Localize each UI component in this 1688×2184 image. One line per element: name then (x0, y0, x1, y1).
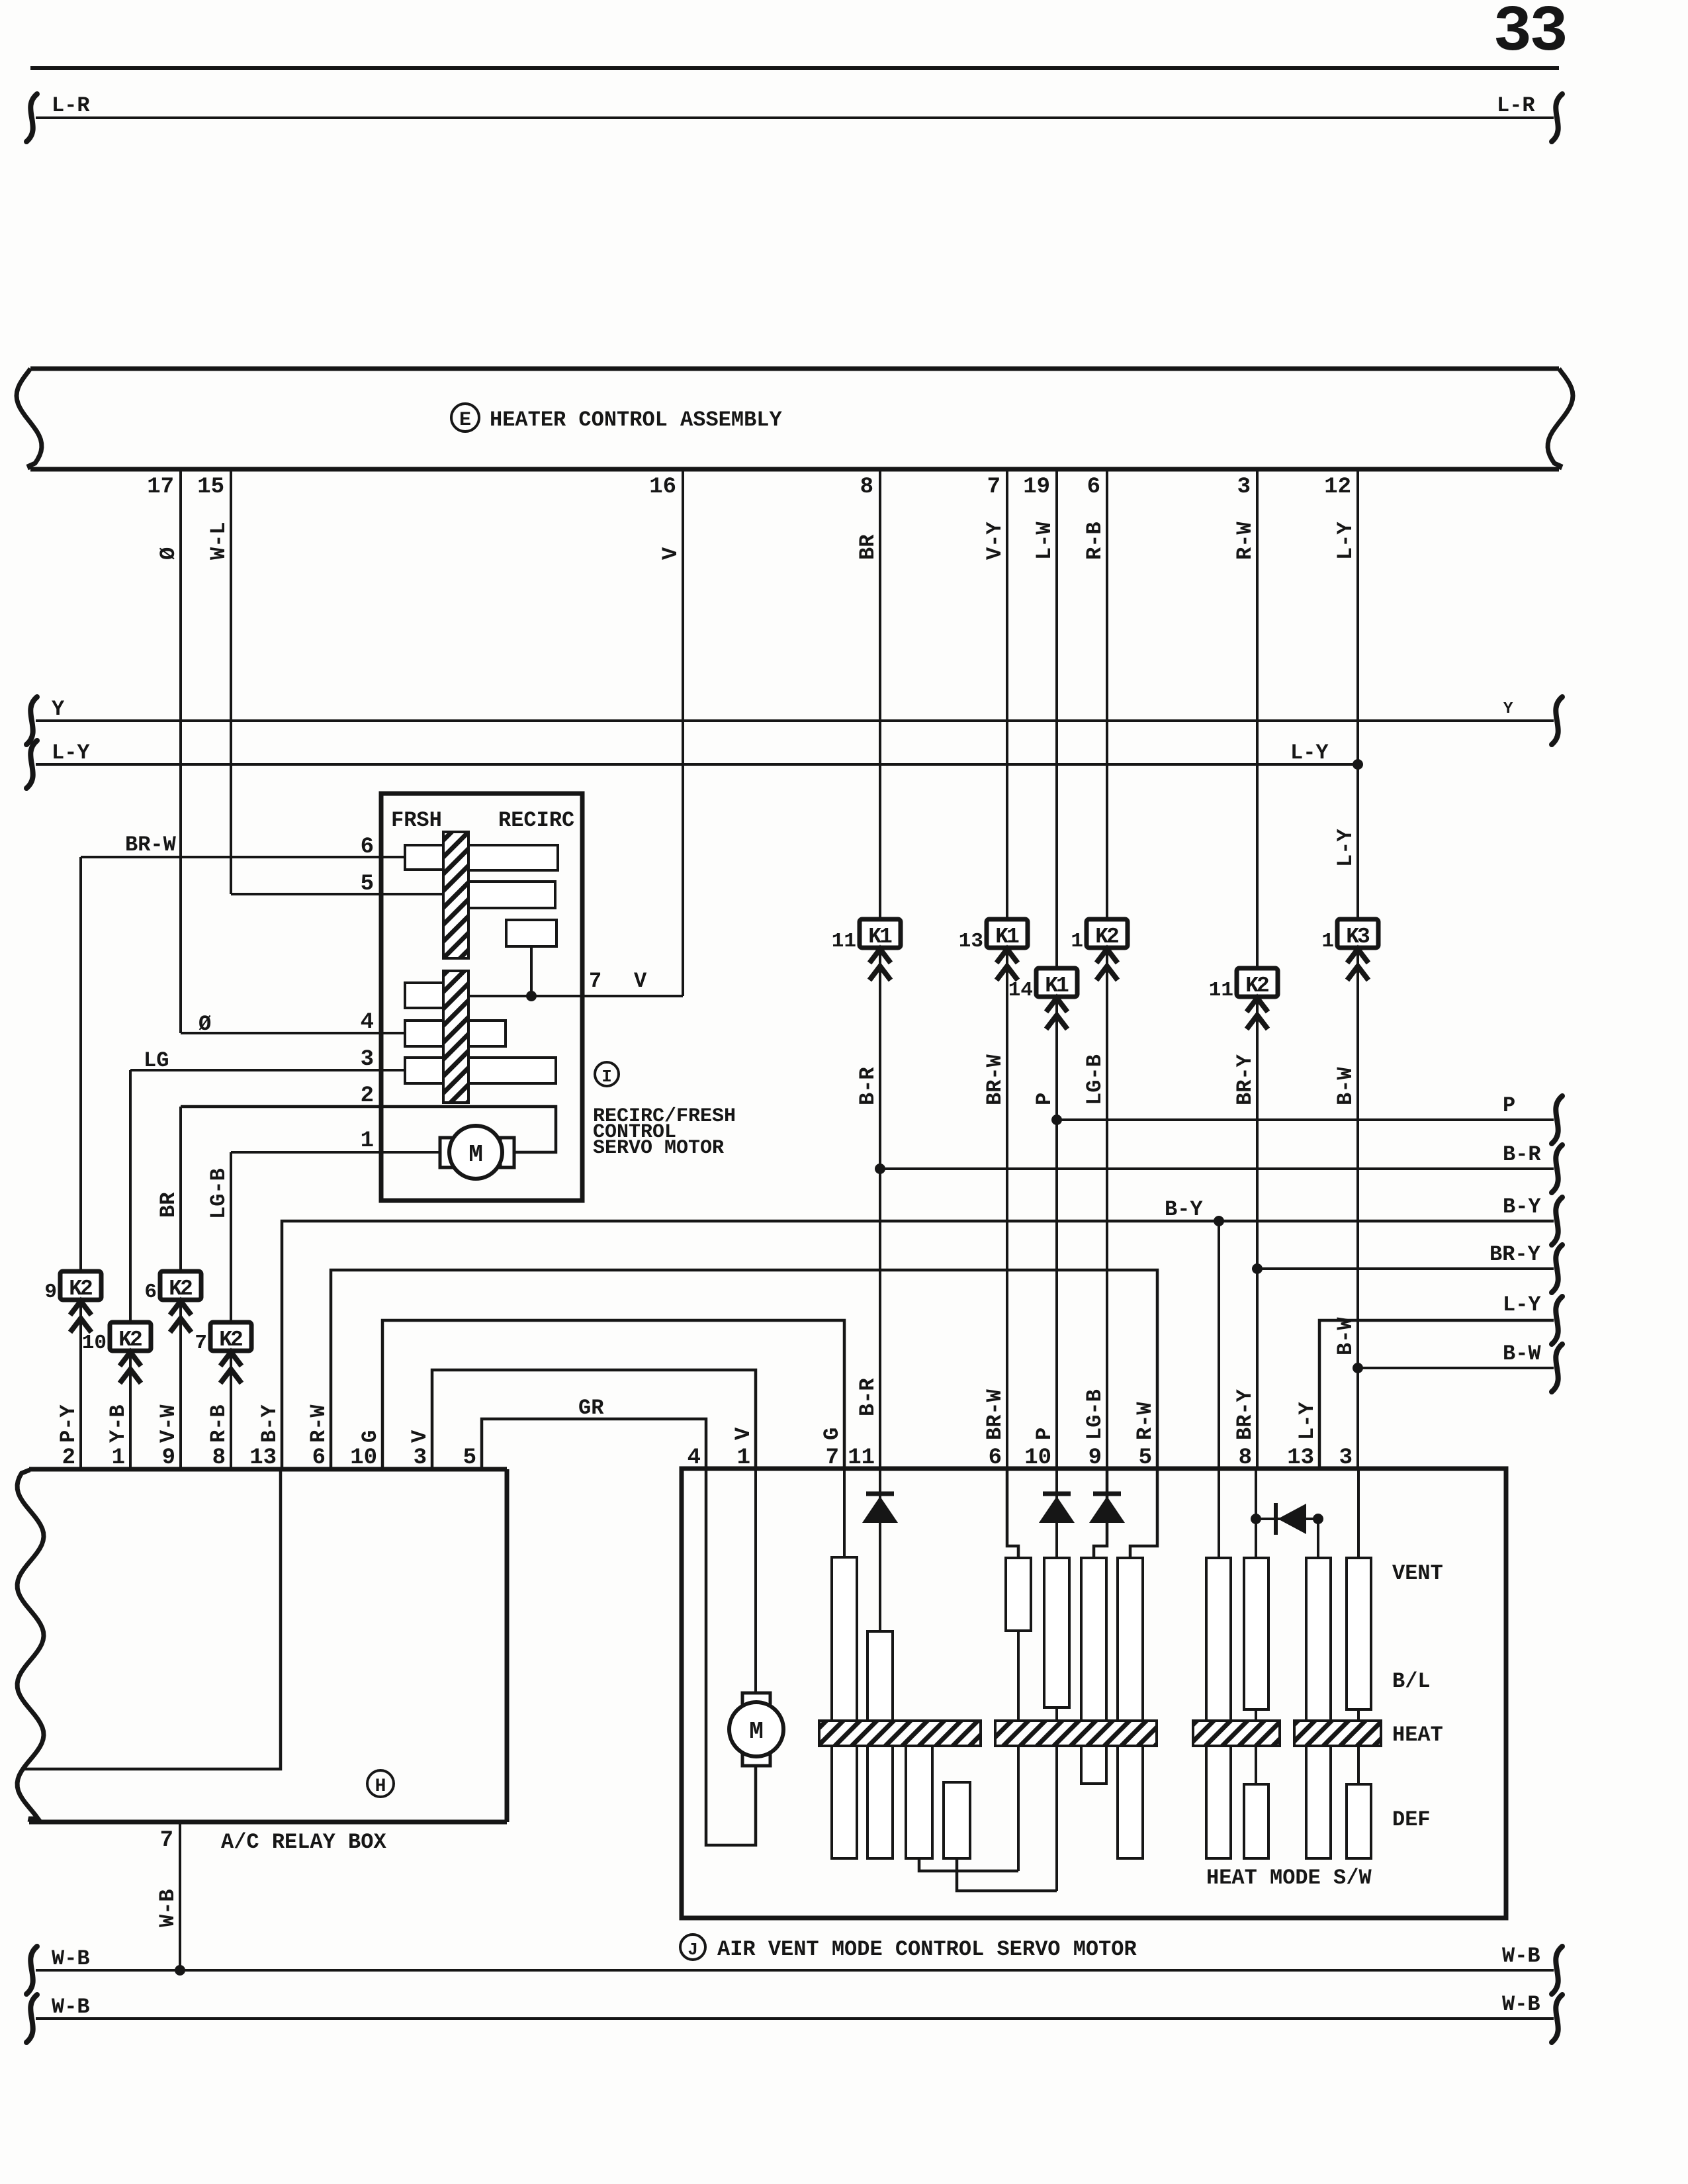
wire L-Y bus (36, 763, 1358, 766)
heater pin 19 wire L-W (1023, 469, 1057, 968)
svg-text:14: 14 (1008, 979, 1033, 1002)
wire I pin5 W-L (231, 872, 443, 897)
svg-text:BR: BR (156, 1192, 181, 1218)
svg-text:7: 7 (195, 1332, 207, 1355)
svg-text:3: 3 (361, 1047, 374, 1072)
heater pin 17 wire Ø (147, 469, 181, 1033)
connector 7 K2 (195, 1322, 251, 1383)
wire I pin4 O (181, 1010, 405, 1036)
label W-B left 2 (52, 1995, 90, 2019)
label P-Y / relay pin 2 (56, 1404, 81, 1471)
svg-text:P: P (1503, 1093, 1515, 1118)
switch contact BR-W (1006, 1558, 1031, 1871)
wire L-R (top bus) (36, 116, 1554, 119)
wire BR-W down to relay pin 2 (79, 857, 82, 1469)
label Y left (52, 697, 65, 721)
wire P exit (1051, 1093, 1562, 1144)
junction B-Y / box J pin12 (1214, 1216, 1224, 1226)
contact RECIRC mid (468, 882, 555, 908)
wire G relay pin10 to J pin7 (350, 1320, 844, 1471)
heat mode switch: strip L-Y (1306, 1519, 1331, 1858)
wire R-W relay pin6 to J pin5 (306, 1270, 1157, 1471)
svg-text:H: H (375, 1776, 386, 1797)
svg-text:7: 7 (160, 1828, 173, 1853)
svg-text:33: 33 (1493, 0, 1566, 69)
svg-text:AIR VENT MODE CONTROL SERVO MO: AIR VENT MODE CONTROL SERVO MOTOR (717, 1937, 1137, 1962)
svg-text:1: 1 (361, 1128, 374, 1154)
label R-B / relay pin 8 (206, 1404, 231, 1471)
wire I pin3 LG (130, 1047, 405, 1073)
svg-text:W-L: W-L (206, 522, 231, 560)
svg-text:SERVO MOTOR: SERVO MOTOR (593, 1137, 724, 1160)
motor M servo J (729, 1693, 783, 1766)
svg-text:12: 12 (1324, 475, 1351, 500)
heat mode switch: strip B-W with center tap (1347, 1469, 1371, 1858)
svg-text:L-R: L-R (1497, 93, 1535, 118)
wiper bar mid (hatched) (995, 1721, 1157, 1746)
svg-text:16: 16 (649, 475, 676, 500)
svg-text:6: 6 (144, 1281, 157, 1304)
connector 13 K1 (959, 919, 1028, 980)
label B/L (1392, 1669, 1431, 1694)
contact bar lower (hatched) (443, 971, 468, 1103)
svg-text:L-Y: L-Y (52, 741, 90, 765)
svg-text:Y: Y (1503, 700, 1513, 718)
wire P (L-W to J pin10) (1024, 998, 1057, 1471)
svg-text:4: 4 (361, 1010, 374, 1035)
connector 14 K1 (1008, 968, 1077, 1029)
label W-B left 1 (52, 1946, 90, 1971)
svg-text:LG-B: LG-B (206, 1168, 231, 1219)
svg-text:G: G (358, 1430, 382, 1443)
svg-text:BR: BR (856, 534, 880, 560)
svg-text:A/C RELAY BOX: A/C RELAY BOX (221, 1830, 386, 1854)
connector 1 K2 (1071, 919, 1128, 980)
heat mode switch: strip BR-Y with center tap (1244, 1469, 1268, 1858)
svg-text:8: 8 (212, 1445, 226, 1471)
svg-text:W-B: W-B (155, 1889, 180, 1927)
svg-text:B-Y: B-Y (1503, 1195, 1541, 1219)
svg-text:BR-W: BR-W (983, 1054, 1007, 1105)
svg-text:BR-Y: BR-Y (1489, 1242, 1541, 1267)
relay box H outline (17, 1469, 507, 1822)
svg-text:LG: LG (144, 1048, 169, 1073)
svg-text:V: V (731, 1427, 756, 1440)
label HEATER CONTROL ASSEMBLY (490, 408, 782, 432)
label W-B right 1 (1502, 1944, 1540, 1968)
svg-text:B-W: B-W (1333, 1067, 1358, 1105)
svg-text:5: 5 (361, 872, 374, 897)
label VENT (1392, 1561, 1443, 1586)
svg-text:BR-Y: BR-Y (1233, 1388, 1257, 1440)
svg-text:R-W: R-W (1233, 522, 1257, 560)
svg-text:M: M (468, 1141, 483, 1168)
svg-text:GR: GR (578, 1396, 604, 1420)
wiper bar heat-mode left (hatched) (1193, 1721, 1280, 1746)
svg-text:B-Y: B-Y (1165, 1197, 1203, 1222)
wire LG-B (R-B to J pin9) (1083, 948, 1107, 1471)
wiper bar left (hatched) (819, 1721, 981, 1746)
junction W-B / relay pin7 (175, 1965, 185, 1976)
svg-text:HEATER CONTROL ASSEMBLY: HEATER CONTROL ASSEMBLY (490, 408, 782, 432)
label V-W / relay pin 9 (156, 1404, 181, 1471)
label Y-B / relay pin 1 (106, 1404, 130, 1471)
svg-text:8: 8 (860, 475, 873, 500)
connector 11 K2 (1209, 968, 1278, 1029)
svg-text:HEAT: HEAT (1392, 1723, 1443, 1747)
svg-text:M: M (749, 1718, 764, 1745)
wire B-R (BR to J pin11) (848, 948, 880, 1471)
svg-text:G: G (820, 1428, 844, 1440)
svg-text:W-B: W-B (52, 1946, 90, 1971)
wire I pin1 (231, 1128, 440, 1154)
wire B-W exit (1353, 1342, 1562, 1392)
circle label I (595, 1062, 619, 1087)
svg-text:V: V (658, 547, 683, 560)
svg-text:7: 7 (589, 969, 601, 993)
svg-text:I: I (601, 1067, 612, 1087)
break symbol right L-R (1552, 94, 1562, 142)
wire I pin6 BR-W (81, 833, 405, 860)
svg-text:P: P (1032, 1428, 1057, 1440)
wire B-Y drop to J pin 12 (1218, 1221, 1220, 1469)
svg-text:17: 17 (147, 475, 174, 500)
heater pin 16 wire V (649, 469, 683, 996)
wire B-Y relay pin13 to bus (249, 1197, 1554, 1471)
svg-text:2: 2 (361, 1083, 374, 1109)
connector 1 K3 (1321, 919, 1378, 980)
wire W-B bus 2 (36, 2017, 1554, 2020)
junction feedback/V (526, 991, 537, 1001)
contact pin3 (405, 1058, 556, 1083)
svg-text:LG-B: LG-B (1083, 1389, 1107, 1440)
contact pin4 (405, 1021, 506, 1046)
contact RECIRC upper (468, 845, 558, 870)
wire J pin6 BR-W jog (1007, 1469, 1018, 1558)
switch strip LG-B (1081, 1558, 1106, 1784)
wire B-R exit (875, 1142, 1562, 1193)
svg-text:V-Y: V-Y (983, 522, 1007, 560)
break symbol right Y (1552, 697, 1562, 745)
circle label H (367, 1770, 394, 1797)
svg-text:L-Y: L-Y (1295, 1402, 1319, 1440)
svg-text:1: 1 (1321, 930, 1334, 953)
connector 6 K2 (144, 1271, 201, 1332)
connector 10 K2 (82, 1322, 151, 1383)
svg-text:R-B: R-B (206, 1404, 231, 1443)
svg-text:B-R: B-R (856, 1378, 880, 1416)
switch strip mid-left (to P) (906, 1745, 1018, 1871)
wire I pin2 (181, 1083, 556, 1152)
break symbol left W-B 1 (26, 1946, 37, 1994)
svg-text:2: 2 (62, 1445, 75, 1471)
svg-text:3: 3 (414, 1445, 427, 1471)
diode D2 on P (1039, 1469, 1075, 1558)
label AIR VENT MODE CONTROL SERVO MOTOR (717, 1937, 1137, 1962)
motor M servo I (440, 1126, 514, 1179)
diode D4 horizontal (1251, 1503, 1323, 1535)
diode D1 on B-R (862, 1469, 898, 1631)
label HEAT MODE S/W (1206, 1866, 1372, 1890)
svg-text:B-R: B-R (856, 1067, 880, 1105)
svg-text:B/L: B/L (1392, 1669, 1431, 1694)
heater pin 6 wire R-B (1083, 469, 1107, 919)
wire GR relay pin5 to J pin4 (463, 1396, 706, 1471)
heater pin 7 wire V-Y (983, 469, 1007, 919)
svg-text:P: P (1032, 1093, 1057, 1105)
break symbol left W-B 2 (26, 1995, 37, 2042)
svg-text:E: E (459, 409, 471, 432)
svg-text:10: 10 (82, 1332, 107, 1355)
svg-text:FRSH: FRSH (391, 808, 442, 833)
switch strip low-left (to BR-W) (944, 1782, 1057, 1891)
connector 11 K1 (832, 919, 901, 980)
break symbol left L-R (26, 94, 37, 142)
svg-text:V: V (634, 969, 647, 993)
svg-text:1: 1 (1071, 930, 1083, 953)
svg-text:L-Y: L-Y (1290, 741, 1329, 765)
svg-text:Ø: Ø (199, 1012, 211, 1036)
svg-text:11: 11 (832, 930, 856, 953)
wire BR down to relay pin 9 (156, 1107, 181, 1469)
svg-text:L-Y: L-Y (1333, 829, 1358, 867)
label B-Y right + break (1503, 1195, 1562, 1245)
svg-text:7: 7 (987, 475, 1000, 500)
wiper bar heat-mode right (hatched) (1294, 1721, 1381, 1746)
contact upper-left lower bar (405, 983, 443, 1008)
wire J pin5 R-W jog (1130, 1469, 1157, 1558)
connector 9 K2 (44, 1271, 101, 1332)
servo motor I RECIRC/FRESH box (381, 794, 582, 1201)
svg-text:L-R: L-R (52, 93, 90, 118)
svg-text:3: 3 (1237, 475, 1251, 500)
svg-text:5: 5 (463, 1445, 476, 1471)
switch strip R-W (1118, 1558, 1143, 1858)
label A/C RELAY BOX (221, 1830, 386, 1854)
svg-text:13: 13 (249, 1445, 277, 1471)
label FRSH (391, 808, 442, 833)
svg-text:13: 13 (959, 930, 983, 953)
break symbol left L-Y (26, 741, 37, 788)
svg-text:11: 11 (1209, 979, 1233, 1002)
relay box H internal wire pin13 (24, 1469, 281, 1769)
switch contact P (1044, 1558, 1069, 1891)
wire Y bus (36, 719, 1554, 722)
heater pin 3 wire R-W (1233, 469, 1257, 968)
svg-text:RECIRC: RECIRC (498, 808, 574, 833)
svg-text:VENT: VENT (1392, 1561, 1443, 1586)
label L-Y rotated on pin12 line (1333, 829, 1358, 867)
svg-text:B-W: B-W (1333, 1317, 1358, 1355)
svg-text:B-R: B-R (1503, 1142, 1541, 1167)
circle label E (451, 404, 479, 432)
wire J pin1 to motor high side (754, 1469, 757, 1695)
wire pin7 V (468, 969, 683, 996)
switch strip B-R (867, 1631, 893, 1858)
label W-B right 2 (1502, 1992, 1540, 2017)
wire J pin7 G (843, 1469, 846, 1557)
svg-text:R-W: R-W (306, 1404, 331, 1443)
svg-text:V: V (408, 1430, 432, 1443)
label L-Y left (52, 741, 90, 765)
svg-text:9: 9 (162, 1445, 175, 1471)
break symbol left Y (26, 697, 37, 745)
svg-text:6: 6 (312, 1445, 326, 1471)
wire feedback to V (530, 946, 533, 996)
switch strip G (832, 1557, 857, 1858)
svg-text:W-B: W-B (1502, 1944, 1540, 1968)
svg-text:P-Y: P-Y (56, 1404, 81, 1443)
svg-text:6: 6 (361, 835, 374, 860)
svg-text:Y: Y (52, 697, 65, 721)
svg-text:BR-Y: BR-Y (1233, 1054, 1257, 1105)
junction L-Y / pin12 (1353, 759, 1363, 770)
svg-text:19: 19 (1023, 475, 1050, 500)
wire relay pin7 W-B (155, 1822, 180, 1970)
break symbol right W-B 2 (1552, 1995, 1562, 2042)
svg-text:9: 9 (44, 1281, 57, 1304)
wire BR-W (V-Y to J pin6) (983, 948, 1007, 1471)
contact bar FRSH (hatched) (443, 832, 468, 958)
svg-text:BR-W: BR-W (125, 833, 177, 857)
top border rule (30, 66, 1559, 70)
svg-text:L-W: L-W (1032, 522, 1057, 560)
svg-text:10: 10 (350, 1445, 377, 1471)
wire L-Y exit to J pin13 (1287, 1293, 1562, 1471)
wire LG-B down to relay pin 8 (206, 1152, 231, 1469)
label DEF (1392, 1807, 1431, 1832)
wire BR-Y (R-W to J pin8) (1233, 998, 1257, 1471)
svg-text:W-B: W-B (1502, 1992, 1540, 2017)
svg-text:B-Y: B-Y (257, 1404, 282, 1443)
svg-text:BR-W: BR-W (983, 1388, 1007, 1440)
wire J pin4 to motor low side (706, 1469, 756, 1845)
svg-text:Ø: Ø (156, 547, 181, 560)
diode D3 on LG-B (1089, 1469, 1125, 1558)
break symbol right W-B 1 (1552, 1946, 1562, 1994)
wire V relay pin3 to J pin1 (408, 1370, 756, 1471)
contact feedback (506, 920, 556, 946)
circle label J (680, 1934, 705, 1960)
svg-text:R-W: R-W (1133, 1402, 1157, 1440)
svg-text:L-Y: L-Y (1333, 522, 1358, 560)
wire B-W (L-Y to J pin3) (1333, 948, 1358, 1471)
servo motor J box (682, 1469, 1506, 1918)
svg-text:L-Y: L-Y (1503, 1293, 1541, 1317)
wire BR-Y exit (1252, 1242, 1562, 1293)
svg-text:Y-B: Y-B (106, 1404, 130, 1443)
connector E HEATER CONTROL ASSEMBLY box (17, 369, 1573, 469)
wire W-B bus 1 (36, 1969, 1554, 1972)
svg-text:HEAT MODE S/W: HEAT MODE S/W (1206, 1866, 1372, 1890)
svg-text:LG-B: LG-B (1083, 1054, 1107, 1105)
label L-R left (52, 93, 90, 118)
label RECIRC/FRESH CONTROL SERVO MOTOR (593, 1105, 736, 1160)
heater pin 12 wire L-Y (1324, 469, 1358, 919)
svg-text:DEF: DEF (1392, 1807, 1431, 1832)
label L-Y mid (1290, 741, 1329, 765)
svg-text:W-B: W-B (52, 1995, 90, 2019)
svg-text:15: 15 (197, 475, 224, 500)
label HEAT (1392, 1723, 1443, 1747)
label RECIRC (498, 808, 574, 833)
svg-text:1: 1 (112, 1445, 125, 1471)
svg-text:B-W: B-W (1503, 1342, 1541, 1366)
label Y right (1503, 700, 1513, 718)
svg-text:J: J (688, 1940, 698, 1960)
heater pin 8 wire BR (856, 469, 880, 919)
page number 33 (1493, 0, 1566, 69)
svg-text:R-B: R-B (1083, 522, 1107, 560)
svg-text:V-W: V-W (156, 1404, 181, 1443)
contact pin6 (405, 845, 443, 870)
svg-text:6: 6 (1087, 475, 1100, 500)
heater pin 15 wire W-L (197, 469, 231, 894)
label L-R right (1497, 93, 1535, 118)
heat mode switch: strip B-Y (1206, 1469, 1231, 1858)
wire LG down to relay pin 1 (129, 1070, 132, 1469)
